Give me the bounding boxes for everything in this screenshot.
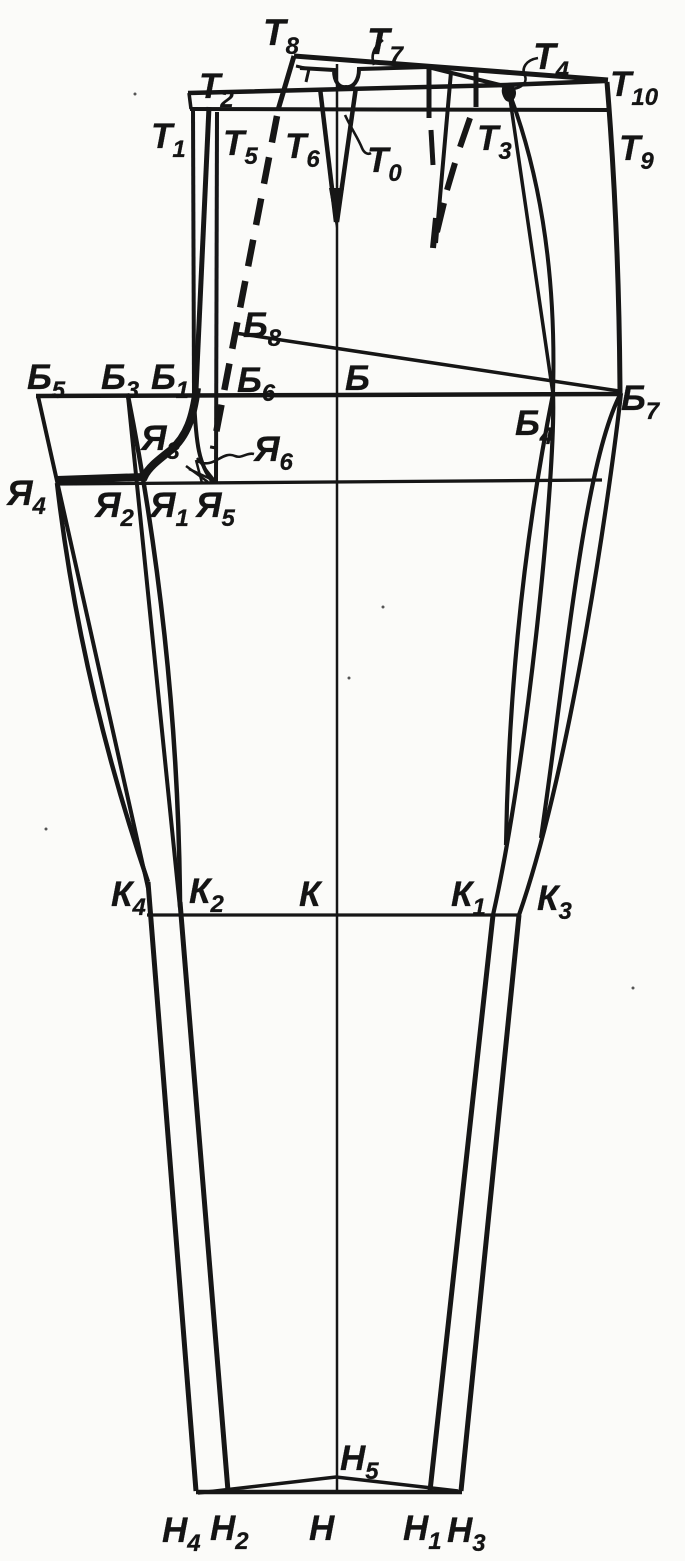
wire back inseam pair B7-K3 line b	[519, 393, 621, 915]
wire hem baseline H4-H3	[196, 1490, 462, 1495]
front dart right leg	[337, 87, 356, 222]
bisector hatch 3 at crotch corner	[200, 459, 211, 481]
wire back side seam straight B5-K4	[38, 396, 148, 888]
leader line T4	[506, 58, 538, 89]
wire leg K1-H1	[430, 915, 493, 1491]
right-angle mark at T8	[296, 66, 309, 82]
back dart center line	[436, 72, 451, 243]
back dart left leg dash	[431, 130, 433, 165]
speck	[632, 987, 635, 990]
wire front inseam pair B4-K1 line b	[493, 394, 553, 915]
wire crotch depth line Ya	[57, 480, 602, 484]
back dart left leg stub	[427, 64, 432, 118]
wire horizontal waist construction line	[190, 109, 611, 110]
wire front inseam pair B4-K1 line a	[506, 394, 553, 845]
svg-text:К: К	[299, 875, 323, 914]
wire leg K4-H4	[148, 882, 196, 1491]
wire back side seam curve Ya4-K4	[57, 483, 148, 882]
wire center crease vertical line	[336, 64, 339, 1490]
front dart tip fill	[329, 188, 344, 228]
wire back side seam curved T4-B4	[509, 92, 553, 394]
wire back seat curve heavy	[57, 388, 197, 480]
back dart right leg stub	[474, 69, 479, 107]
wire front side seam curve B3-K2	[128, 396, 180, 902]
wire top waist auxiliary line T8-T10	[294, 56, 608, 80]
wire front crotch curve	[194, 398, 213, 482]
dashed balance line from waist to B8-B6	[213, 116, 277, 449]
wire front waistline T2 to T10	[188, 81, 605, 93]
bisector hatch 2 at crotch corner	[189, 469, 215, 481]
wire back waistline T8 inner with bridge notch	[300, 67, 508, 87]
wire front side seam straight B3-K2	[128, 396, 180, 908]
bisector hatch 4 at crotch corner	[186, 466, 208, 482]
node T10 right outline down to B7	[607, 82, 620, 393]
junction blob at T4	[503, 84, 515, 101]
wire hip line B5-B7	[36, 394, 620, 396]
wire knee line K4-K3	[147, 913, 519, 916]
wire left vertical T1-B1	[193, 108, 194, 396]
wire back center slanted line	[196, 107, 209, 390]
speck	[382, 606, 385, 609]
bisector hatch 5 at crotch corner	[196, 460, 202, 483]
wire leg K3-H3	[461, 915, 519, 1491]
front dart left leg	[320, 88, 336, 222]
back dart right leg dashed	[433, 118, 470, 248]
svg-text:Б: Б	[345, 359, 370, 398]
leader line Ya6	[197, 454, 254, 464]
wire back side seam straight T4-B4	[509, 92, 553, 394]
bisector hatch 1 at crotch corner	[197, 458, 215, 481]
wire leg K2-H2	[180, 902, 228, 1491]
wire line B8 to B7	[235, 333, 619, 391]
leader line T0	[345, 115, 371, 154]
wire hem curve raised to H5	[198, 1477, 458, 1493]
speck	[348, 677, 351, 680]
svg-text:Н: Н	[309, 1509, 335, 1548]
wire T2 corner connector	[189, 93, 191, 109]
leader line T7	[373, 40, 383, 65]
wire back inseam pair B7-K3 line a	[541, 393, 621, 838]
wire steep line T8 down to waistline	[278, 56, 294, 110]
speck	[45, 828, 48, 831]
speck	[134, 93, 137, 96]
wire left vertical T5 to crotch corner	[216, 112, 217, 482]
